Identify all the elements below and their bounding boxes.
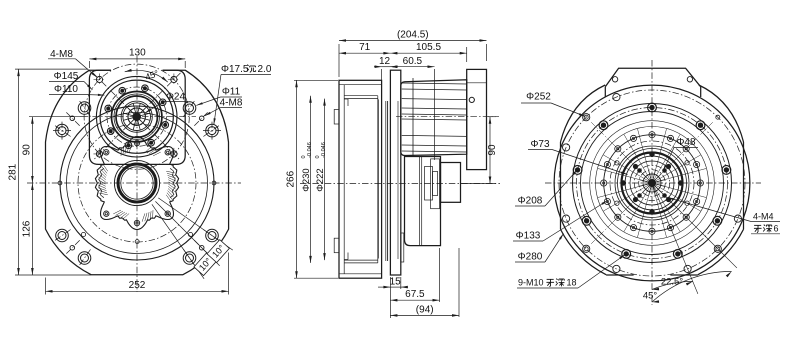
M10 bolt circle dash-dot — [577, 108, 728, 259]
svg-text:60.5: 60.5 — [403, 56, 423, 67]
svg-text:4-M4: 4-M4 — [753, 212, 774, 222]
extension line 90 top — [29, 116, 88, 118]
9-M10 threaded holes — [648, 103, 657, 112]
main plate side rect — [390, 70, 400, 275]
dimension 71 — [339, 52, 390, 54]
right view horizontal centerline — [545, 182, 761, 184]
svg-text:15: 15 — [390, 276, 402, 287]
dimension 90 left — [31, 117, 33, 183]
rear center concentric circles — [604, 135, 701, 232]
flower bolt holes — [134, 140, 139, 145]
side view motor axis centerline — [396, 116, 499, 118]
svg-text:Φ11: Φ11 — [222, 87, 241, 98]
plate inner groove line — [397, 101, 399, 259]
svg-text:Φ145: Φ145 — [54, 71, 79, 82]
output end boss — [441, 163, 461, 203]
plate corner mounting holes top — [56, 124, 69, 137]
svg-text:67.5: 67.5 — [405, 289, 425, 300]
motor body side — [401, 80, 467, 156]
output boss circle inner — [67, 113, 208, 254]
radial centerline fan — [652, 183, 706, 198]
dimension 67.5 — [390, 299, 439, 301]
motor rear box — [467, 69, 487, 169]
angular dimension 10-10 wedge — [158, 198, 233, 250]
svg-text:105.5: 105.5 — [416, 42, 441, 53]
side view output axis centerline — [300, 183, 500, 185]
angular dimensions 22.5 and 45 — [652, 183, 698, 294]
dimension 90 axis offset — [489, 117, 491, 184]
svg-text:126: 126 — [21, 220, 32, 237]
gear housing rear block — [405, 157, 441, 246]
dimension 60.5 — [390, 66, 434, 68]
svg-text:9-M10: 9-M10 — [518, 278, 544, 288]
small holes on output boss circle — [212, 181, 216, 185]
housing disc left tabs — [334, 110, 339, 125]
right view vertical centerline — [651, 60, 653, 305]
svg-text:281: 281 — [7, 163, 18, 180]
output bolt circle dash-dot — [78, 124, 196, 242]
rear boss circle 2 — [581, 112, 724, 255]
left view plate outline — [46, 70, 229, 275]
holes on phi133 circle — [697, 180, 703, 186]
output boss circle outer — [60, 106, 214, 260]
spigot lines between disc and plate — [385, 101, 387, 261]
svg-text:(204.5): (204.5) — [397, 30, 429, 41]
svg-text:-0.046: -0.046 — [307, 142, 313, 158]
svg-text:Φ280: Φ280 — [518, 252, 543, 263]
plate corner mounting holes on r91.5 pattern — [78, 252, 91, 265]
motor rear box cap line — [467, 82, 487, 84]
svg-text:Φ133: Φ133 — [516, 231, 541, 242]
dimension phi230 tolerance — [310, 96, 312, 263]
svg-text:266: 266 — [285, 170, 296, 187]
phi252 bolt circle dash-dot — [559, 90, 745, 276]
45 degree angular dimension arc — [125, 70, 168, 82]
housing disc outer rect — [339, 80, 382, 278]
dimension 266 — [296, 80, 298, 278]
dimension 12 — [382, 66, 391, 68]
extension line 281 top — [15, 68, 88, 70]
rear plate corner ears — [560, 142, 562, 229]
input shaft spline hub — [133, 113, 141, 121]
4-M8 holes on phi145 circle — [171, 151, 177, 157]
extension line 281 bottom — [15, 274, 91, 276]
svg-text:71: 71 — [359, 42, 371, 53]
dimension 252 bottom — [46, 290, 229, 292]
svg-text:130: 130 — [129, 48, 146, 59]
dimension 105.5 — [390, 52, 466, 54]
svg-text:6: 6 — [774, 224, 779, 234]
rear boss circle 1 — [573, 104, 732, 263]
dimension (94) — [390, 314, 459, 316]
thin rings r56 r62 — [596, 127, 709, 240]
rear center hub — [649, 180, 656, 187]
motor rear box hole — [469, 97, 474, 102]
dimension phi222 tolerance — [324, 99, 326, 261]
plate seal tabs — [401, 233, 404, 262]
svg-text:Φ24: Φ24 — [166, 92, 186, 103]
flower serrated inner line — [99, 168, 104, 197]
motor input concentric circles — [96, 76, 177, 157]
svg-text:Φ208: Φ208 — [518, 196, 543, 207]
svg-text:Φ222: Φ222 — [315, 168, 326, 191]
left view vertical centerline — [136, 56, 138, 292]
gear housing inner vertical — [419, 157, 421, 246]
dimension 281 left — [18, 69, 20, 275]
4-M4 and misc small holes — [663, 194, 667, 198]
8 motor mounting holes dark — [162, 122, 169, 129]
disc inner corner steps — [344, 98, 348, 100]
svg-text:Φ48: Φ48 — [676, 137, 696, 148]
dimension 15 — [390, 286, 400, 288]
flower serration hatching — [166, 171, 175, 173]
svg-text:4-M8: 4-M8 — [220, 98, 243, 109]
left view 45deg diagonal centerline NW-SE — [93, 73, 181, 161]
housing disc inner lines — [339, 84, 382, 86]
svg-text:Φ17.5: Φ17.5 — [221, 64, 249, 75]
left view output axis horizontal centerline — [27, 182, 241, 184]
output bore thick ring — [118, 164, 156, 202]
output bore inner — [121, 167, 153, 199]
svg-text:252: 252 — [129, 280, 146, 291]
svg-text:12: 12 — [379, 56, 391, 67]
flower serrated inner line — [170, 168, 175, 197]
dimension 130 top — [89, 58, 185, 60]
cycloid flower plate outline — [95, 137, 178, 230]
left view motor axis horizontal centerline — [80, 116, 196, 118]
holes on phi252 circle — [734, 215, 741, 222]
svg-text:4-M8: 4-M8 — [50, 49, 73, 60]
rear flange tab — [605, 68, 700, 87]
output bore outer ring — [114, 160, 159, 205]
svg-text:18: 18 — [567, 278, 577, 288]
rear disc outer circle — [554, 85, 750, 281]
svg-text:-0.046: -0.046 — [321, 142, 327, 158]
svg-text:2.0: 2.0 — [258, 64, 272, 75]
svg-text:90: 90 — [21, 144, 32, 156]
output shaft steps — [425, 167, 433, 201]
motor cooling ribs — [402, 83, 467, 84]
left view 45deg diagonal centerline NE-SW — [93, 73, 181, 161]
svg-text:22.5°: 22.5° — [661, 277, 683, 288]
svg-text:90: 90 — [487, 144, 498, 156]
dimension (204.5) — [339, 40, 487, 42]
dimension 126 left — [31, 183, 33, 275]
svg-text:Φ110: Φ110 — [54, 84, 78, 95]
svg-text:45°: 45° — [643, 291, 658, 302]
svg-text:Φ73: Φ73 — [530, 139, 550, 150]
svg-text:Φ230: Φ230 — [301, 168, 312, 191]
svg-text:(94): (94) — [416, 304, 434, 315]
svg-text:Φ252: Φ252 — [526, 92, 551, 103]
motor flange square outline — [89, 70, 185, 164]
